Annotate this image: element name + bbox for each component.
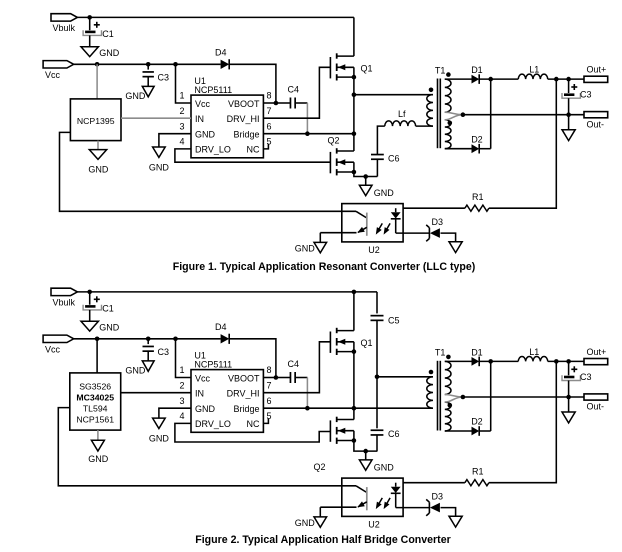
svg-text:GND: GND (99, 48, 120, 58)
wire D4 cathode to VBOOT (229, 339, 276, 378)
transistor Q1 (330, 53, 372, 80)
U1 pin number 1 (179, 91, 184, 101)
svg-text:DRV_LO: DRV_LO (195, 419, 231, 429)
svg-text:C5: C5 (388, 316, 400, 326)
U1 pin number 8 (267, 91, 272, 101)
svg-text:1: 1 (179, 91, 184, 101)
resistor R1 (465, 192, 489, 211)
svg-text:SG3526: SG3526 (79, 382, 111, 392)
caption Figure 2 (195, 534, 450, 546)
diode D1 (471, 347, 483, 366)
wire bridge to transformer primary (354, 94, 433, 96)
wire D3 anode to ground (441, 233, 456, 242)
controller SG3526/MC34025/TL594/NCP1561 (70, 373, 121, 430)
svg-text:Vbulk: Vbulk (53, 298, 76, 308)
wire secondary top to D1 (445, 78, 472, 80)
svg-text:DRV_HI: DRV_HI (227, 389, 260, 399)
terminal Out+ (584, 347, 608, 365)
svg-text:Bridge: Bridge (233, 130, 259, 140)
node Vcc rail / pin1 junction (173, 337, 178, 342)
svg-text:Vcc: Vcc (195, 373, 211, 383)
node Vcc rail / C3 junction (146, 62, 151, 67)
svg-text:GND: GND (88, 454, 109, 464)
U1 pin 4 label DRV_LO (195, 145, 231, 155)
transformer T1 secondary bottom winding (445, 402, 451, 431)
U1 pin number 5 (267, 137, 272, 147)
node Vcc rail / control box junction (95, 62, 100, 67)
T1 secondary bottom phase dot (448, 121, 453, 126)
wire Out+ to R1 (489, 79, 556, 208)
svg-text:Vcc: Vcc (45, 70, 61, 80)
svg-text:DRV_LO: DRV_LO (195, 145, 231, 155)
svg-text:L1: L1 (529, 65, 539, 75)
U1 pin 4 label DRV_LO (195, 419, 231, 429)
wire center tap to Out- (463, 396, 584, 398)
svg-text:GND: GND (125, 366, 146, 376)
ground at output (562, 397, 575, 423)
terminal Vcc (43, 335, 74, 354)
svg-text:Vbulk: Vbulk (53, 23, 76, 33)
capacitor C6 (371, 377, 400, 451)
U1 pin number 3 (179, 121, 184, 131)
wire Q1 drain (353, 292, 355, 331)
U1 pin 5 NC stub (263, 418, 268, 423)
capacitor C3 (output) (562, 361, 592, 397)
node Out+/R1 junction (554, 77, 559, 82)
U1 pin 7 label DRV_HI (227, 114, 260, 124)
ground at Q2 source (359, 451, 394, 472)
svg-text:NC: NC (247, 419, 260, 429)
node bridge / Q-leg junction (352, 406, 357, 411)
ground below C3 (125, 361, 154, 376)
ground at output (562, 115, 575, 141)
svg-text:4: 4 (179, 137, 184, 147)
driver U1 NCP5111 (191, 351, 263, 433)
transformer T1 primary winding (427, 95, 433, 127)
U1 pin number 5 (267, 411, 272, 421)
ground below control box (88, 150, 109, 175)
U1 pin 8 label VBOOT (228, 99, 260, 109)
svg-text:Out-: Out- (587, 402, 605, 412)
svg-text:NCP1561: NCP1561 (76, 415, 114, 425)
svg-text:C3: C3 (158, 347, 170, 357)
node Out-/C3 junction (566, 395, 571, 400)
svg-text:GND: GND (99, 323, 120, 333)
terminal Vbulk (figure 1) (51, 14, 77, 33)
wire Q1 drain (353, 17, 355, 56)
svg-text:T1: T1 (435, 65, 446, 75)
svg-text:C3: C3 (580, 372, 592, 382)
svg-text:C4: C4 (288, 359, 300, 369)
diode D2 (471, 417, 483, 436)
T1 primary phase dot (429, 88, 434, 93)
ground at Q2 source (359, 177, 394, 198)
svg-text:D4: D4 (215, 322, 227, 332)
svg-text:GND: GND (295, 243, 316, 253)
U1 pin 6 label Bridge (233, 404, 259, 414)
svg-text:D3: D3 (432, 217, 444, 227)
capacitor C3 (Vcc bypass) (143, 339, 170, 361)
U1 pin number 2 (179, 106, 184, 116)
inductor L1 (518, 347, 547, 362)
node center tap junction (461, 112, 466, 117)
wire D1/D2 cathode tie (490, 361, 492, 431)
node Out+/C3 junction (566, 359, 571, 364)
svg-text:GND: GND (125, 91, 146, 101)
U1 pin 2 label IN (195, 114, 204, 124)
svg-text:Out-: Out- (587, 119, 605, 129)
svg-text:Figure 1. Typical Application: Figure 1. Typical Application Resonant C… (173, 261, 476, 273)
zener diode D3 (426, 217, 443, 242)
U1 pin 6 label Bridge (233, 130, 259, 140)
node Vbulk/C1 junction (87, 15, 92, 20)
wire control box supply drop (96, 64, 98, 99)
wire Vcc to U1 pin 1 (176, 339, 192, 378)
capacitor C4 (276, 85, 308, 109)
wire Q2 drain (353, 408, 355, 419)
U1 pin 1 label Vcc (195, 99, 211, 109)
svg-text:MC34025: MC34025 (76, 393, 114, 403)
node bridge / Q-leg junction (352, 131, 357, 136)
U2 light arrows (376, 498, 390, 509)
svg-text:TL594: TL594 (83, 404, 108, 414)
terminal Vcc (43, 61, 74, 80)
U1 pin 5 label NC (247, 419, 260, 429)
svg-text:GND: GND (195, 404, 216, 414)
wire Vbulk rail (77, 291, 377, 293)
U1 pin 3 label GND (195, 404, 216, 414)
wire Lf to C6 (377, 126, 384, 154)
wire secondary bottom to D2 (445, 430, 472, 432)
transformer T1 secondary bottom winding (445, 120, 451, 149)
zener diode D3 (426, 491, 443, 516)
U1 pin number 1 (179, 365, 184, 375)
transistor Q2 (314, 417, 354, 472)
transformer T1 secondary top winding (445, 79, 451, 112)
wire control box ground stub (97, 141, 99, 150)
U1 pin number 7 (267, 106, 272, 116)
svg-text:Bridge: Bridge (233, 404, 259, 414)
wire control box ground stub (97, 430, 99, 440)
diode D2 (471, 134, 483, 153)
node center tap junction (461, 395, 466, 400)
svg-text:Out+: Out+ (587, 65, 607, 75)
wire R1 to optocoupler LED (403, 482, 465, 484)
wire secondary center tap (445, 395, 463, 403)
wire U1 pin 3 GND (159, 408, 191, 418)
svg-text:C1: C1 (102, 303, 114, 313)
node Out-/C3 junction (566, 112, 571, 117)
U2 phototransistor (320, 486, 367, 511)
terminal Out+ (584, 65, 608, 83)
wire C4 to bridge node (306, 378, 308, 409)
optocoupler U2 (342, 204, 403, 255)
terminal Out- (584, 394, 608, 412)
svg-text:GND: GND (195, 130, 216, 140)
wire U1 pin 7 DRV_HI to Q1 gate (263, 67, 330, 118)
node C4/bridge junction (305, 406, 310, 411)
wire U1 pin 7 DRV_HI to Q1 gate (263, 342, 330, 393)
inductor L1 (518, 65, 547, 80)
node VBOOT/C4 junction (274, 375, 279, 380)
ground below C1 (81, 321, 120, 332)
wire C5/C6 midpoint to transformer primary (377, 376, 433, 378)
svg-text:IN: IN (195, 114, 204, 124)
svg-text:8: 8 (267, 365, 272, 375)
T1 secondary top phase dot (446, 355, 451, 360)
svg-text:3: 3 (179, 121, 184, 131)
svg-text:8: 8 (267, 91, 272, 101)
svg-text:NC: NC (247, 145, 260, 155)
wire U2 LED cathode to D3 (396, 507, 430, 509)
wire U1 pin 8 VBOOT stub (263, 377, 276, 379)
wire D1 cathode (479, 78, 518, 80)
ground at D3 (449, 242, 462, 253)
wire Vcc to U1 pin 1 (176, 64, 192, 103)
wire Vbulk rail (77, 16, 354, 18)
U2 LED (391, 483, 401, 508)
svg-text:VBOOT: VBOOT (228, 373, 260, 383)
svg-text:Q1: Q1 (361, 338, 373, 348)
svg-text:C1: C1 (102, 29, 114, 39)
node bridge / transformer junction (352, 92, 357, 97)
resistor R1 (465, 467, 489, 486)
transistor Q1 (330, 328, 372, 355)
U1 pin number 6 (267, 121, 272, 131)
svg-text:3: 3 (179, 396, 184, 406)
svg-text:2: 2 (179, 380, 184, 390)
node Q1 source junction (352, 349, 357, 354)
U2 phototransistor (320, 211, 367, 236)
svg-text:D2: D2 (471, 134, 483, 144)
node D1/D2 cathode junction (488, 359, 493, 364)
svg-text:NCP5111: NCP5111 (194, 359, 232, 369)
U2 light arrows (376, 223, 390, 234)
node Vbulk rail / Q1 drain junction (352, 290, 357, 295)
transformer T1 core (435, 348, 446, 431)
node Vcc rail / pin1 junction (173, 62, 178, 67)
wire Q1 source to bridge (353, 67, 355, 133)
node Q2 source junction (352, 438, 357, 443)
ground at D3 (449, 516, 462, 527)
svg-text:7: 7 (267, 106, 272, 116)
T1 primary phase dot (429, 370, 434, 375)
node Q1 source junction (352, 75, 357, 80)
wire Vcc rail (74, 63, 221, 65)
svg-text:GND: GND (88, 165, 109, 175)
svg-text:R1: R1 (472, 467, 484, 477)
node D1/D2 cathode junction (488, 77, 493, 82)
controller NCP1395 (70, 99, 121, 141)
svg-text:NCP5111: NCP5111 (194, 85, 232, 95)
svg-text:IN: IN (195, 389, 204, 399)
transformer T1 core (435, 65, 446, 148)
capacitor C6 (371, 153, 400, 176)
svg-text:Vcc: Vcc (195, 99, 211, 109)
svg-text:Out+: Out+ (587, 347, 607, 357)
node Q2 source / ground junction (363, 449, 368, 454)
U2 LED (391, 208, 401, 233)
ground at U1 pin 3 (149, 418, 170, 444)
svg-text:C6: C6 (388, 429, 400, 439)
U1 pin 5 label NC (247, 145, 260, 155)
wire U1 pin 4 DRV_LO to Q2 gate (175, 149, 331, 162)
svg-text:Figure 2. Typical Application: Figure 2. Typical Application Half Bridg… (195, 534, 450, 546)
wire U1 pin 6 Bridge (263, 407, 433, 409)
svg-text:U2: U2 (368, 245, 380, 255)
inductor Lf (385, 109, 416, 126)
wire secondary bottom to D2 (445, 148, 472, 150)
svg-text:GND: GND (374, 188, 395, 198)
driver U1 NCP5111 (191, 76, 263, 158)
ground below C3 (125, 86, 154, 101)
U1 pin number 6 (267, 396, 272, 406)
caption Figure 1 (173, 261, 476, 273)
wire U1 pin 3 GND (159, 134, 191, 147)
svg-text:GND: GND (149, 163, 170, 173)
svg-text:C3: C3 (580, 90, 592, 100)
capacitor C3 (Vcc bypass) (143, 64, 170, 86)
node Vcc rail / C3 junction (146, 337, 151, 342)
node Q2 source / ground junction (363, 174, 368, 179)
transformer T1 secondary top winding (445, 361, 451, 394)
U1 pin number 4 (179, 411, 184, 421)
wire U1 pin 6 Bridge (263, 133, 354, 135)
svg-text:R1: R1 (472, 192, 484, 202)
wire control box supply drop (96, 339, 98, 373)
wire R1 to optocoupler LED (403, 207, 465, 209)
wire U2 LED cathode to D3 (396, 232, 430, 234)
wire Q2 source node (354, 431, 378, 451)
node VBOOT/C4 junction (274, 101, 279, 106)
wire D3 anode to ground (441, 508, 456, 517)
svg-text:D4: D4 (215, 48, 227, 58)
U1 pin number 4 (179, 137, 184, 147)
svg-text:NCP1395: NCP1395 (77, 116, 115, 126)
svg-text:2: 2 (179, 106, 184, 116)
svg-text:D3: D3 (432, 491, 444, 501)
wire D1/D2 cathode tie (490, 79, 492, 149)
svg-text:7: 7 (267, 380, 272, 390)
T1 secondary bottom phase dot (448, 403, 453, 408)
wire C4 to bridge node (306, 103, 308, 134)
wire U1 pin 2 IN from control box (121, 392, 191, 394)
U1 pin number 7 (267, 380, 272, 390)
ground below control box (88, 440, 109, 464)
svg-text:Vcc: Vcc (45, 345, 61, 355)
terminal Out- (584, 112, 608, 130)
svg-text:Q2: Q2 (314, 462, 326, 472)
wire D2 cathode (479, 148, 491, 150)
U1 pin number 2 (179, 380, 184, 390)
wire Q2 drain (353, 134, 355, 151)
wire feedback control box to optocoupler (58, 408, 356, 486)
svg-text:6: 6 (267, 121, 272, 131)
svg-text:DRV_HI: DRV_HI (227, 114, 260, 124)
capacitor C5 (371, 292, 400, 377)
svg-text:6: 6 (267, 396, 272, 406)
node Out+/C3 junction (566, 77, 571, 82)
terminal Vbulk (figure 2) (51, 288, 77, 307)
wire Out+ to R1 (489, 361, 556, 482)
svg-text:GND: GND (149, 434, 170, 444)
svg-text:D1: D1 (471, 347, 483, 357)
wire U1 pin 4 DRV_LO to Q2 gate (175, 423, 331, 442)
wire L1 to Out+ (548, 78, 584, 80)
capacitor C1 (83, 292, 114, 321)
wire Vcc rail (74, 338, 221, 340)
svg-text:Lf: Lf (398, 109, 406, 119)
node Vcc rail / control box junction (95, 337, 100, 342)
node C5/C6 midpoint (375, 375, 380, 380)
ground at U1 pin 3 (149, 147, 170, 173)
svg-text:C3: C3 (158, 73, 170, 83)
transistor Q2 (328, 136, 354, 176)
wire secondary center tap (445, 112, 463, 120)
ground at U2 emitter (295, 507, 327, 528)
U1 pin number 8 (267, 365, 272, 375)
wire Q1 source to bridge (353, 342, 355, 408)
optocoupler U2 (342, 478, 403, 529)
wire Q2 source node (354, 162, 378, 176)
transformer T1 primary winding (427, 377, 433, 408)
svg-text:L1: L1 (529, 347, 539, 357)
svg-text:T1: T1 (435, 348, 446, 358)
node Vbulk/C1 junction (87, 290, 92, 295)
svg-text:D1: D1 (471, 65, 483, 75)
U1 pin 2 label IN (195, 389, 204, 399)
svg-text:Q1: Q1 (361, 64, 373, 74)
wire L1 to Out+ (548, 360, 584, 362)
svg-text:D2: D2 (471, 417, 483, 427)
svg-text:Q2: Q2 (328, 136, 340, 146)
T1 secondary top phase dot (446, 72, 451, 77)
wire D4 cathode to VBOOT (229, 64, 276, 103)
svg-text:1: 1 (179, 365, 184, 375)
node C4/bridge junction (305, 131, 310, 136)
U1 pin 8 label VBOOT (228, 373, 260, 383)
wire D1 cathode (479, 360, 518, 362)
U1 pin 7 label DRV_HI (227, 389, 260, 399)
U1 pin number 3 (179, 396, 184, 406)
diode D1 (471, 65, 483, 84)
diode D4 (215, 322, 229, 344)
capacitor C4 (276, 359, 308, 383)
U1 pin 1 label Vcc (195, 373, 211, 383)
wire transformer primary bottom to Lf (416, 125, 433, 127)
U1 pin 5 NC stub (263, 144, 268, 149)
ground below C1 (81, 47, 120, 58)
wire center tap to Out- (463, 114, 584, 116)
wire U1 pin 8 VBOOT stub (263, 102, 276, 104)
ground at U2 emitter (295, 233, 327, 254)
U1 pin 3 label GND (195, 130, 216, 140)
svg-text:C6: C6 (388, 153, 400, 163)
svg-text:VBOOT: VBOOT (228, 99, 260, 109)
node Out+/R1 junction (554, 359, 559, 364)
svg-text:GND: GND (295, 518, 316, 528)
svg-text:C4: C4 (288, 85, 300, 95)
svg-text:4: 4 (179, 411, 184, 421)
capacitor C3 (output) (562, 79, 592, 115)
svg-text:U2: U2 (368, 519, 380, 529)
wire secondary top to D1 (445, 360, 472, 362)
svg-text:GND: GND (374, 463, 395, 473)
wire feedback control box to optocoupler (60, 132, 357, 211)
node Q2 source junction (352, 170, 357, 175)
wire D2 cathode (479, 430, 491, 432)
wire U1 pin 2 IN from control box (121, 117, 191, 119)
